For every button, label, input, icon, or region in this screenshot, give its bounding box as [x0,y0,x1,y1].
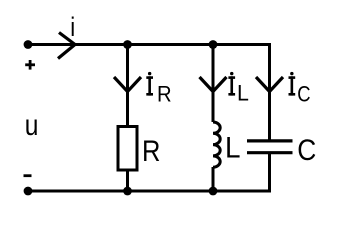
minus terminal sign [24,174,32,177]
label I_R (phasor I with dot, subscript R) [146,72,171,107]
svg-text:L: L [225,132,241,165]
node bottom-R junction [123,187,132,196]
arrow current IR [114,77,141,92]
label I_L (phasor I with dot, subscript L) [228,72,248,106]
svg-text:R: R [157,82,172,107]
wire L branch top [212,43,215,122]
inductor L coil [213,122,220,167]
capacitor C plates [247,141,293,153]
wire L branch bottom [212,167,215,191]
label I_C (phasor I with dot, subscript C) [289,72,311,107]
node top-R junction [123,40,132,49]
node A (top-left terminal) [24,40,33,49]
node top-L junction [209,40,218,49]
svg-text:u: u [25,107,39,141]
arrow current IL [200,77,227,92]
wire right vertical upper (C branch top) [268,43,271,140]
svg-text:C: C [297,82,310,107]
wire R branch bottom [126,170,129,191]
svg-text:C: C [297,132,316,166]
arrow current IC [256,77,283,92]
svg-text:R: R [142,134,160,167]
arrow current i on top wire [58,33,75,59]
wire R branch top [126,43,129,126]
resistor R body [118,127,137,171]
node bottom-left terminal [24,187,33,196]
wire bottom horizontal [28,190,271,193]
wire right vertical lower (C branch bottom) [268,154,271,193]
plus terminal sign [25,60,35,70]
node bottom-L junction [209,187,218,196]
wire top horizontal [28,43,271,46]
svg-text:i: i [70,13,75,43]
svg-text:L: L [237,80,249,106]
